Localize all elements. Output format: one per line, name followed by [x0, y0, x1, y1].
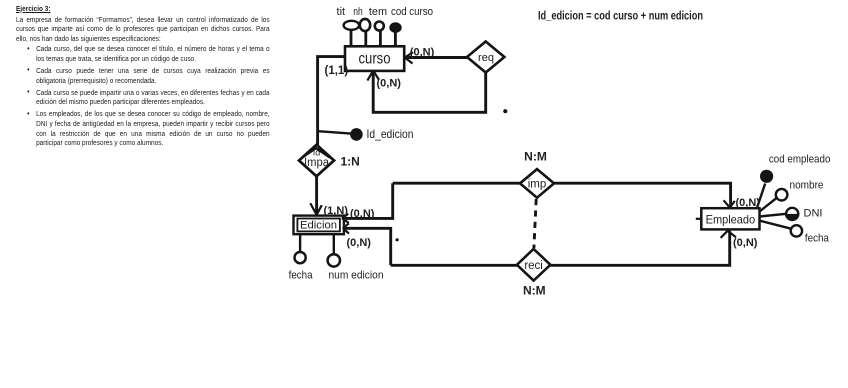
svg-text:Id_edicion = cod curso + num e: Id_edicion = cod curso + num edicion [538, 11, 703, 23]
svg-text:N:M: N:M [524, 150, 547, 164]
svg-text:Id_edicion: Id_edicion [367, 127, 414, 141]
svg-text:N:M: N:M [523, 284, 546, 298]
svg-text:fecha: fecha [805, 233, 830, 245]
svg-text:(0,N): (0,N) [733, 237, 758, 249]
svg-text:num edicion: num edicion [329, 269, 384, 281]
svg-text:(0,N): (0,N) [347, 237, 372, 249]
svg-text:cod empleado: cod empleado [769, 154, 831, 166]
svg-text:cod curso: cod curso [391, 6, 433, 18]
svg-text:fecha: fecha [289, 269, 314, 281]
svg-text:Edicion: Edicion [300, 220, 337, 232]
svg-text:tem: tem [369, 6, 387, 18]
svg-text:(1,N): (1,N) [324, 205, 349, 217]
svg-text:nombre: nombre [790, 180, 824, 192]
svg-text:DNI: DNI [804, 207, 823, 219]
svg-text:curso: curso [359, 51, 391, 68]
svg-text:nh: nh [353, 6, 363, 18]
svg-text:Empleado: Empleado [706, 213, 756, 227]
svg-text:(0,N): (0,N) [410, 46, 435, 58]
svg-text:(0,N): (0,N) [350, 208, 375, 220]
svg-text:reci: reci [524, 260, 543, 272]
svg-text:(0,N): (0,N) [377, 77, 402, 89]
svg-text:imp: imp [528, 179, 547, 191]
svg-text:(0,N): (0,N) [736, 197, 761, 209]
svg-text:1:N: 1:N [341, 155, 360, 169]
svg-text:tit: tit [337, 6, 346, 18]
svg-text:(1,1): (1,1) [325, 65, 349, 77]
svg-text:Impa: Impa [304, 157, 330, 169]
svg-text:req: req [478, 52, 494, 64]
